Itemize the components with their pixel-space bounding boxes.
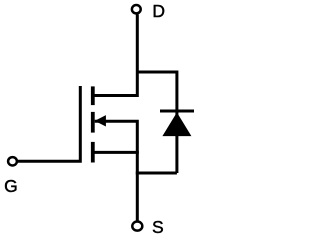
svg-text:G: G xyxy=(4,176,18,196)
svg-text:D: D xyxy=(152,1,165,21)
svg-text:S: S xyxy=(152,217,164,237)
